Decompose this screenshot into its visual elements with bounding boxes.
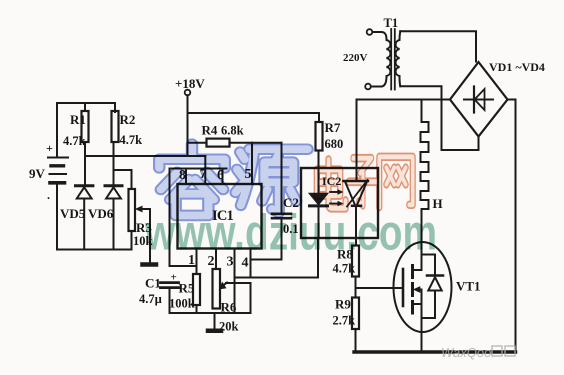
svg-text:4.7k: 4.7k xyxy=(63,134,86,148)
svg-text:R9: R9 xyxy=(335,297,351,312)
wire C2 top xyxy=(281,143,283,213)
diode VD6 xyxy=(105,186,122,250)
transistor VT1 envelope xyxy=(394,242,452,332)
wire battery negative to R3 bottom xyxy=(57,185,132,250)
svg-text:220V: 220V xyxy=(343,52,368,64)
wire LED cathode drop xyxy=(317,238,319,278)
ground G2 xyxy=(208,329,221,334)
bridge rectifier VD1-VD4 diamond xyxy=(450,62,508,137)
svg-text:4.7µ: 4.7µ xyxy=(139,292,162,306)
transformer T1 primary winding xyxy=(381,32,390,87)
svg-text:4.7k: 4.7k xyxy=(333,262,356,276)
wire pin3 row to optocoupler LED xyxy=(235,277,319,279)
pin 7 stub from bias rail xyxy=(204,156,206,184)
resistor R2 xyxy=(112,111,119,142)
VT1 channel bar xyxy=(411,266,414,314)
svg-text:T1: T1 xyxy=(384,16,399,30)
pin 1 stub xyxy=(196,249,198,267)
ground G1 xyxy=(143,262,157,267)
wire IC1 top pin rail xyxy=(170,168,227,170)
svg-text:100k: 100k xyxy=(169,297,195,311)
transformer T1 primary terminal lower xyxy=(365,84,371,90)
resistor R3 xyxy=(129,189,136,231)
svg-text:.: . xyxy=(47,188,50,202)
wire gate node to VT1 gate xyxy=(356,287,403,289)
light arrows xyxy=(330,189,344,206)
pin 4 stub xyxy=(250,249,252,278)
svg-text:R5: R5 xyxy=(179,281,195,296)
transformer T1 primary terminal upper xyxy=(367,29,373,35)
wire photothyristor top from mains node xyxy=(356,100,358,182)
svg-text:VD6: VD6 xyxy=(88,206,114,221)
svg-text:C1: C1 xyxy=(145,276,161,291)
diode VD5 xyxy=(76,186,93,250)
resistor R5 xyxy=(193,274,200,305)
resistor R9 xyxy=(352,298,359,330)
VT1 gate plate xyxy=(402,269,405,306)
wire bridge right vertex to right rail xyxy=(508,100,516,353)
potentiometer R3 wiper arrow to ground xyxy=(135,206,150,263)
svg-text:4.7k: 4.7k xyxy=(120,133,143,147)
pin 2 stub to R6 xyxy=(215,249,217,270)
svg-text:+: + xyxy=(46,141,53,155)
wire R8 bottom to gate node xyxy=(355,277,357,298)
wire bridge left vertex to heater and IC2 xyxy=(357,99,451,101)
wire pin rail left drop to C1 node xyxy=(169,169,171,267)
wire R2 bottom to VD6 xyxy=(113,142,115,185)
wire pin1 to C1 top link xyxy=(170,265,197,267)
potentiometer R6 xyxy=(213,269,221,309)
svg-text:+18V: +18V xyxy=(175,76,205,91)
transformer T1 core xyxy=(391,29,395,90)
svg-text:680: 680 xyxy=(325,137,344,151)
svg-text:VD5: VD5 xyxy=(60,206,86,221)
wire +18V down to bias rail xyxy=(187,95,189,156)
svg-text:VT1: VT1 xyxy=(456,279,481,294)
VT1 drain lead xyxy=(414,242,422,270)
IC1 box xyxy=(178,184,262,249)
VT1 body diode xyxy=(422,276,444,319)
wire R4 right to C2 column xyxy=(230,142,282,144)
ground G2 stem xyxy=(214,313,216,330)
svg-text:R6: R6 xyxy=(221,300,237,315)
power +18V terminal xyxy=(185,90,191,96)
transformer T1 secondary winding xyxy=(396,31,401,86)
R6 wiper arrow loop to ground rail xyxy=(219,282,251,313)
wire primary lower lead xyxy=(371,86,381,88)
wire R5 top stub xyxy=(196,266,198,274)
svg-text:20k: 20k xyxy=(219,320,239,334)
VT1 body diode cathode branch xyxy=(422,255,436,276)
wire ground rail under IC1 xyxy=(170,312,251,314)
capacitor C2 xyxy=(272,214,291,218)
svg-text:WaxQoo: WaxQoo xyxy=(441,345,491,360)
svg-text:VD1 ~VD4: VD1 ~VD4 xyxy=(489,60,545,74)
photothyristor inside IC2 xyxy=(344,180,369,207)
wire top rail battery to R1 R2 tops xyxy=(57,103,115,157)
battery 9V plates xyxy=(48,158,68,183)
wire VD6 node to R3 top xyxy=(114,170,132,189)
resistor R8 xyxy=(352,246,359,277)
svg-text:R4: R4 xyxy=(202,123,218,138)
capacitor C1 xyxy=(161,283,179,313)
wire R9 bottom to bottom rail xyxy=(355,329,357,352)
svg-text:www.dziuu.com: www.dziuu.com xyxy=(144,205,437,261)
wire photothyristor cathode to R8 xyxy=(355,206,357,246)
svg-text:R7: R7 xyxy=(325,120,341,135)
svg-text:+: + xyxy=(171,272,177,284)
wire +18V rail to R7 xyxy=(188,113,320,122)
wire bottom rail xyxy=(354,350,516,353)
pin 8 stub xyxy=(185,169,187,185)
resistor R1 xyxy=(82,111,89,142)
svg-text:R2: R2 xyxy=(120,112,136,127)
wire R1 bottom to VD5 xyxy=(84,142,86,185)
VT1 source lead xyxy=(414,303,422,305)
svg-text:9V: 9V xyxy=(29,166,46,181)
wire R7 bottom to IC2 LED anode xyxy=(318,151,320,194)
wire primary upper lead xyxy=(372,31,381,33)
svg-text:6.8k: 6.8k xyxy=(221,124,244,138)
wire bias rail y156 to pin7 column xyxy=(85,155,205,157)
resistor R7 xyxy=(316,122,323,151)
wire R2 top stub xyxy=(114,103,116,112)
wire C2 bottom to pin4 link xyxy=(251,219,282,260)
bridge inner diode xyxy=(464,87,493,113)
pin 3 stub down to ground rail xyxy=(234,249,236,314)
wire R1 top stub xyxy=(84,103,86,111)
wire R5 bottom xyxy=(196,305,198,313)
VT1 source vertical xyxy=(421,290,423,353)
schematic text labels xyxy=(29,16,545,334)
svg-text:2.7k: 2.7k xyxy=(333,314,356,328)
wire secondary top to bridge top vertex xyxy=(400,31,476,61)
LED inside IC2 xyxy=(310,194,328,239)
svg-text:R1: R1 xyxy=(70,112,86,127)
decorative scan watermark overlay (not a circuit element) xyxy=(144,144,515,360)
wire R3 bottom xyxy=(131,231,133,250)
VT1 body arrow xyxy=(413,286,422,293)
wire R4 left xyxy=(188,142,207,144)
wire pin5 riser xyxy=(251,143,253,184)
pin 6 stub xyxy=(222,169,224,185)
IC2 optocoupler box xyxy=(301,168,378,238)
resistor R4 xyxy=(207,139,230,147)
heating element H xyxy=(421,100,429,243)
wire secondary bottom to bridge bottom vertex xyxy=(400,86,478,150)
